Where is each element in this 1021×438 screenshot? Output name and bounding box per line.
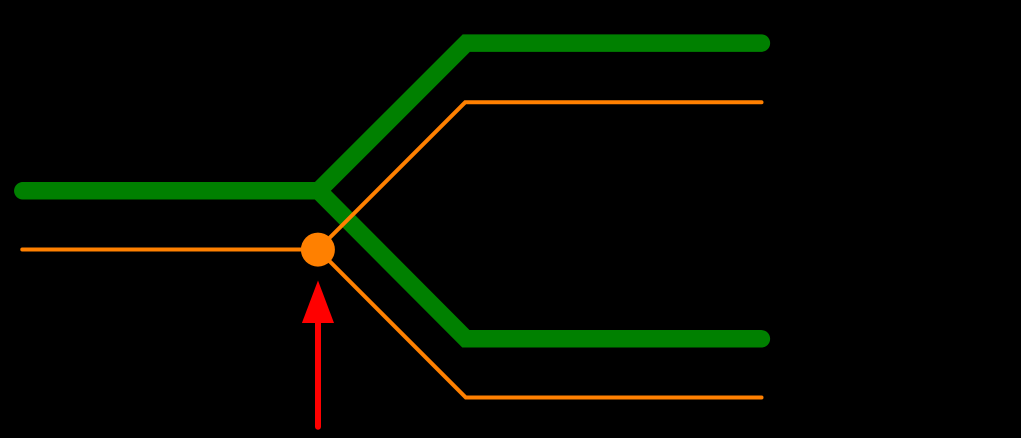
wire: orange template strand + upper branch bbox=[22, 102, 761, 249]
wire: green lower branch strand bbox=[319, 191, 762, 339]
node A: orange origin dot at fork junction bbox=[301, 233, 335, 267]
arrow: red pointer to origin dot (head) bbox=[302, 281, 334, 324]
arrow: red pointer shaft bbox=[315, 323, 321, 427]
wire: green parental duplex + upper leading strand bbox=[23, 43, 762, 191]
wire: orange lower branch bbox=[318, 250, 762, 398]
